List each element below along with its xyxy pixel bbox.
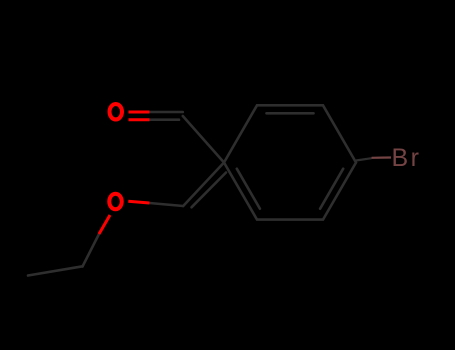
- ring double bond lower-right edge: [320, 169, 343, 209]
- C=O red halves: [129, 112, 150, 120]
- svg-text:Br: Br: [392, 144, 422, 172]
- C-Br bond dark half: [356, 158, 372, 160]
- ethyl CH2-CH3: [28, 266, 83, 275]
- ring double bond top edge: [267, 112, 314, 115]
- C=O dark halves: [149, 112, 182, 120]
- O-CH red half: [128, 201, 149, 203]
- ring double bond lower-left edge: [237, 169, 260, 209]
- O-CH dark half: [149, 203, 183, 206]
- ether O glyph: [109, 194, 122, 210]
- benzene ring: [224, 105, 356, 219]
- exocyclic C=C second line: [192, 173, 227, 208]
- aldehyde O glyph: [110, 104, 123, 120]
- exocyclic C=C main line: [183, 163, 224, 207]
- O-CH2 dark half: [83, 234, 100, 267]
- C-Br bond brown half: [372, 156, 392, 159]
- O-CH2 red half: [99, 215, 110, 234]
- bond CHO to ring: [183, 116, 224, 163]
